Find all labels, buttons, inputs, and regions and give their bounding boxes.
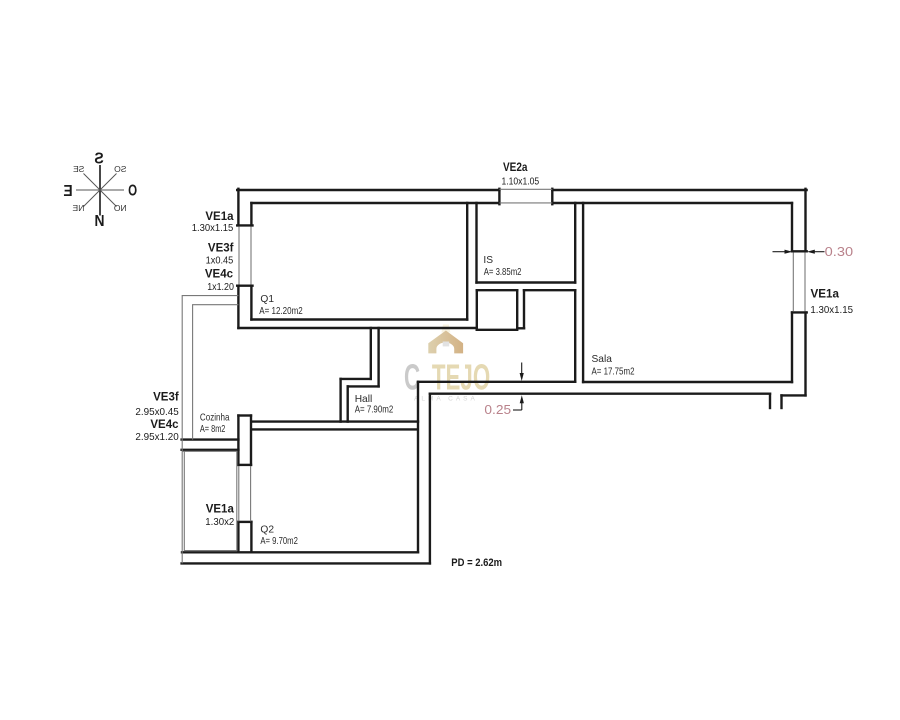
svg-text:A= 3.85m2: A= 3.85m2 xyxy=(484,267,522,278)
svg-text:1.30x2: 1.30x2 xyxy=(205,516,234,528)
wall hall bottom inner xyxy=(418,381,575,383)
dimension texts red xyxy=(484,245,853,417)
svg-text:2.95x1.20: 2.95x1.20 xyxy=(135,431,179,443)
svg-text:A= 17.75m2: A= 17.75m2 xyxy=(592,367,635,378)
svg-text:E: E xyxy=(63,183,72,200)
pillar top cap xyxy=(238,414,251,416)
marquise window inner line xyxy=(193,305,239,440)
svg-text:N: N xyxy=(95,213,105,230)
window VE1a right glass lines xyxy=(792,252,794,311)
room labels xyxy=(200,255,635,547)
shaft bottom wall xyxy=(477,329,517,331)
wall cozinha step horizontal (hall side) xyxy=(348,385,379,387)
wall bottom outer right segment xyxy=(782,394,806,396)
window VE1a sill top xyxy=(237,224,252,226)
marquise lower section inner rectangle xyxy=(182,451,236,550)
wall IS bottom outer right xyxy=(524,289,575,291)
wall Q1 left inner lower xyxy=(250,286,252,320)
wall top outer left segment xyxy=(237,189,499,191)
wall Sala left xyxy=(582,203,584,382)
window VE1a 1.30x2 glass lines xyxy=(238,466,240,521)
svg-text:Hall: Hall xyxy=(355,394,373,405)
wall Q1 left inner upper xyxy=(250,203,252,225)
svg-text:0.30: 0.30 xyxy=(825,245,853,259)
marquise window outer line xyxy=(182,296,238,564)
wall Q2 bottom inner xyxy=(182,551,418,553)
svg-text:PD = 2.62m: PD = 2.62m xyxy=(451,557,502,569)
wall Sala bottom inner xyxy=(583,381,792,383)
dimension 0.25 arrows xyxy=(521,363,523,377)
svg-text:VE1a: VE1a xyxy=(206,504,235,516)
marquise sill lower xyxy=(182,449,239,451)
compass rose xyxy=(63,151,137,231)
svg-text:0.25: 0.25 xyxy=(484,403,511,417)
window labels left top xyxy=(135,162,853,569)
svg-text:A= 8m2: A= 8m2 xyxy=(200,424,226,435)
window VE1a sill bottom xyxy=(237,285,252,287)
watermark house logo xyxy=(404,325,490,403)
svg-text:Sala: Sala xyxy=(592,354,613,365)
window VE1a left glass lines xyxy=(238,227,240,285)
wall bottom outer middle segment xyxy=(430,393,770,395)
dimension 0.30 arrows xyxy=(513,250,825,410)
svg-text:IS: IS xyxy=(483,255,493,266)
marquise sill upper xyxy=(182,438,239,440)
wall cozinha step horizontal (cozinha side) xyxy=(341,378,371,380)
window VE2a jamb left xyxy=(498,189,500,204)
svg-text:Q2: Q2 xyxy=(260,524,274,535)
svg-text:1.10x1.05: 1.10x1.05 xyxy=(502,175,540,187)
svg-text:Cozinha: Cozinha xyxy=(200,413,230,424)
shaft divider cap xyxy=(517,327,524,329)
shaft divider left line xyxy=(516,290,518,328)
svg-text:VE2a: VE2a xyxy=(503,162,528,174)
wall IS right xyxy=(574,203,576,283)
wall IS bottom outer left xyxy=(477,289,517,291)
stub cap below window VE1a 1.30x2 xyxy=(238,521,251,523)
wall top inner left (Q1 top) xyxy=(251,202,499,204)
shaft left wall xyxy=(476,290,478,330)
wall cozinha east upper (hall side) xyxy=(377,328,379,386)
wall Sala right inner lower xyxy=(791,312,793,382)
stub left line xyxy=(237,522,239,552)
wall Q1 bottom inner xyxy=(251,318,467,320)
svg-text:S: S xyxy=(94,151,104,168)
wall Sala right inner upper xyxy=(791,203,793,251)
svg-text:NE: NE xyxy=(72,203,84,213)
pillar bottom cap xyxy=(238,464,251,466)
svg-text:A= 12.20m2: A= 12.20m2 xyxy=(259,306,303,317)
wall cozinha east lower (hall side) xyxy=(347,386,349,421)
svg-text:VE1a: VE1a xyxy=(205,211,234,223)
svg-text:ALMA CASA: ALMA CASA xyxy=(414,396,478,403)
svg-text:1.30x1.15: 1.30x1.15 xyxy=(192,222,234,234)
chimney notch right xyxy=(780,395,782,408)
svg-text:2.95x0.45: 2.95x0.45 xyxy=(135,406,179,418)
pillar right line xyxy=(250,416,252,465)
wall top inner right (IS + Sala top) xyxy=(552,202,792,204)
wall right outer lower xyxy=(804,312,806,395)
watermark CTEJO text xyxy=(404,358,490,398)
svg-text:VE4c: VE4c xyxy=(205,268,234,280)
window VE2a glass lines xyxy=(499,188,552,190)
wall IS bottom inner xyxy=(477,281,576,283)
wall IS left xyxy=(475,203,477,283)
svg-text:SO: SO xyxy=(114,164,127,174)
stub right line xyxy=(250,522,252,552)
wall Q2 top inner xyxy=(252,428,418,430)
svg-text:NO: NO xyxy=(114,203,127,213)
wall cozinha/Q2 north xyxy=(251,420,418,422)
wall left outer lower xyxy=(237,286,239,328)
wall cozinha east upper (cozinha side) xyxy=(370,328,372,379)
svg-text:VE4c: VE4c xyxy=(150,419,179,431)
svg-text:1x0.45: 1x0.45 xyxy=(206,254,234,266)
wall Q2 right outer vertical xyxy=(429,394,431,564)
window VE1a right sill bottom xyxy=(792,311,807,313)
svg-text:1x1.20: 1x1.20 xyxy=(207,281,234,293)
pillar left line xyxy=(237,416,239,465)
wall Q1 right inner xyxy=(466,203,468,320)
svg-text:SE: SE xyxy=(73,164,85,174)
wall Q1 bottom outer xyxy=(238,327,476,329)
wall right outer upper xyxy=(804,189,806,252)
wall alcove right (IS right continued) xyxy=(574,290,576,382)
window VE1a right sill top xyxy=(792,250,807,252)
svg-text:A= 7.90m2: A= 7.90m2 xyxy=(355,405,394,416)
svg-text:VE3f: VE3f xyxy=(153,391,179,403)
wall left outer upper xyxy=(237,189,239,226)
wall bottom outer left segment xyxy=(182,562,430,564)
svg-text:Q1: Q1 xyxy=(260,294,274,305)
svg-text:VE1a: VE1a xyxy=(811,289,840,301)
wall cozinha east lower (cozinha side) xyxy=(339,379,341,422)
wall top outer right segment xyxy=(552,189,806,191)
svg-text:A= 9.70m2: A= 9.70m2 xyxy=(260,536,298,547)
wall hall/Q2 right inner vertical xyxy=(417,382,419,553)
svg-text:TEJO: TEJO xyxy=(432,358,490,398)
svg-text:1.30x1.15: 1.30x1.15 xyxy=(810,304,853,316)
window VE2a jamb right xyxy=(551,189,553,204)
svg-text:VE3f: VE3f xyxy=(208,242,234,254)
svg-text:O: O xyxy=(128,183,137,200)
chimney notch left xyxy=(769,394,771,408)
shaft divider right line xyxy=(523,290,525,328)
